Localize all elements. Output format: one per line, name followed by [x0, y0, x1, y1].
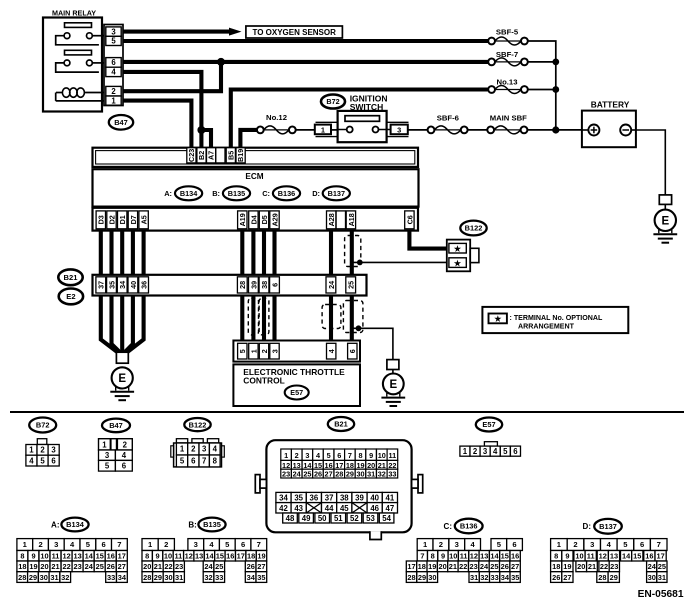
svg-text:A:: A:	[164, 189, 172, 198]
svg-text:7: 7	[117, 540, 121, 549]
svg-text:A5: A5	[140, 215, 149, 224]
svg-text:6: 6	[101, 540, 105, 549]
svg-text:D1: D1	[118, 215, 127, 224]
svg-text:A28: A28	[327, 213, 336, 226]
svg-text:15: 15	[633, 552, 641, 561]
svg-text:★: ★	[494, 315, 502, 324]
svg-text:40: 40	[129, 281, 138, 289]
svg-text:B21: B21	[64, 273, 79, 282]
svg-text:4: 4	[213, 445, 218, 454]
svg-text:B134: B134	[66, 520, 85, 529]
svg-text:D:: D:	[583, 522, 591, 531]
svg-text:27: 27	[511, 562, 519, 571]
svg-text:14: 14	[303, 461, 312, 470]
svg-text:2: 2	[573, 540, 577, 549]
svg-text:48: 48	[286, 514, 295, 523]
svg-text:B134: B134	[180, 189, 198, 198]
svg-text:54: 54	[382, 514, 391, 523]
svg-text:3: 3	[111, 27, 116, 36]
svg-text:25: 25	[347, 281, 356, 289]
svg-text:1: 1	[284, 451, 288, 460]
svg-text:2: 2	[295, 451, 299, 460]
svg-text:B21: B21	[334, 420, 348, 429]
svg-text:18: 18	[18, 562, 26, 571]
svg-text:8: 8	[213, 457, 218, 466]
svg-text:10: 10	[164, 552, 172, 561]
svg-text:20: 20	[577, 562, 585, 571]
svg-text:21: 21	[154, 562, 162, 571]
svg-text:25: 25	[303, 470, 311, 479]
svg-text:11: 11	[460, 552, 468, 561]
svg-text:12: 12	[282, 461, 290, 470]
svg-text:17: 17	[237, 552, 245, 561]
svg-text:7: 7	[420, 552, 424, 561]
svg-text:28: 28	[18, 573, 26, 582]
svg-text:1: 1	[180, 445, 185, 454]
svg-text:34: 34	[247, 573, 256, 582]
svg-text:A18: A18	[347, 213, 356, 226]
svg-text:SBF-6: SBF-6	[437, 114, 459, 123]
svg-text:26: 26	[107, 562, 115, 571]
svg-text:6: 6	[337, 451, 341, 460]
svg-text:11: 11	[389, 451, 397, 460]
svg-text:20: 20	[438, 562, 446, 571]
svg-text:B136: B136	[278, 189, 295, 198]
svg-text:30: 30	[428, 573, 436, 582]
svg-text:23: 23	[610, 562, 618, 571]
svg-text:10: 10	[449, 552, 457, 561]
svg-text:49: 49	[302, 514, 311, 523]
svg-text:22: 22	[459, 562, 467, 571]
svg-text:23: 23	[175, 562, 183, 571]
svg-text:11: 11	[174, 552, 182, 561]
svg-text:B122: B122	[189, 420, 207, 429]
svg-text:33: 33	[490, 573, 498, 582]
svg-text:24: 24	[648, 562, 657, 571]
svg-text:15: 15	[314, 461, 322, 470]
svg-text:1: 1	[102, 441, 107, 450]
svg-text:3: 3	[305, 451, 309, 460]
svg-text:22: 22	[164, 562, 172, 571]
svg-text:30: 30	[648, 573, 656, 582]
svg-text:22: 22	[600, 562, 608, 571]
svg-text:6: 6	[513, 447, 518, 456]
svg-text:11: 11	[52, 552, 60, 561]
svg-text:5: 5	[327, 451, 331, 460]
svg-text:10: 10	[575, 552, 583, 561]
svg-text:44: 44	[325, 504, 334, 513]
svg-text:C:: C:	[444, 522, 452, 531]
svg-text:30: 30	[356, 470, 364, 479]
svg-text:5: 5	[111, 37, 116, 46]
svg-text:4: 4	[122, 451, 127, 460]
svg-text:16: 16	[226, 552, 234, 561]
svg-text:D7: D7	[129, 215, 138, 224]
svg-text:3: 3	[105, 451, 110, 460]
svg-text:18: 18	[418, 562, 426, 571]
svg-text:7: 7	[257, 540, 261, 549]
svg-text:31: 31	[658, 573, 666, 582]
svg-text:5: 5	[503, 447, 508, 456]
svg-text:3: 3	[483, 447, 488, 456]
svg-text:8: 8	[20, 552, 24, 561]
svg-text:42: 42	[279, 504, 288, 513]
svg-text:35: 35	[107, 281, 116, 289]
svg-text:39: 39	[355, 494, 364, 503]
svg-text:No.12: No.12	[266, 113, 287, 122]
svg-text:31: 31	[367, 470, 375, 479]
svg-text:33: 33	[215, 573, 223, 582]
svg-text:B135: B135	[228, 189, 245, 198]
svg-text:2: 2	[38, 540, 42, 549]
svg-text:B136: B136	[460, 522, 478, 531]
svg-text:27: 27	[118, 562, 126, 571]
svg-text:A:: A:	[51, 521, 59, 530]
svg-text:20: 20	[367, 461, 375, 470]
svg-text:50: 50	[318, 514, 327, 523]
svg-text:7: 7	[348, 451, 352, 460]
svg-text:15: 15	[96, 552, 104, 561]
svg-text:B47: B47	[114, 118, 128, 127]
svg-text:ARRANGEMENT: ARRANGEMENT	[518, 322, 575, 330]
svg-text:20: 20	[143, 562, 151, 571]
svg-text:4: 4	[111, 68, 116, 77]
svg-text:40: 40	[370, 494, 379, 503]
svg-text:16: 16	[645, 552, 653, 561]
svg-text:2: 2	[123, 441, 128, 450]
svg-text:10: 10	[378, 451, 386, 460]
svg-text:13: 13	[480, 552, 488, 561]
svg-text:9: 9	[369, 451, 373, 460]
svg-text:38: 38	[340, 494, 349, 503]
svg-text:26: 26	[552, 573, 560, 582]
svg-text:2: 2	[164, 540, 168, 549]
svg-text:30: 30	[164, 573, 172, 582]
svg-text:24: 24	[480, 562, 489, 571]
svg-text:18: 18	[346, 461, 354, 470]
svg-text:C:: C:	[262, 189, 270, 198]
svg-text:8: 8	[431, 552, 435, 561]
svg-text:A29: A29	[270, 213, 279, 226]
svg-text:24: 24	[85, 562, 94, 571]
svg-text:D:: D:	[312, 189, 320, 198]
svg-text:15: 15	[501, 552, 509, 561]
svg-text:32: 32	[204, 573, 212, 582]
svg-text:12: 12	[470, 552, 478, 561]
svg-text:: TERMINAL No. OPTIONAL: : TERMINAL No. OPTIONAL	[510, 314, 604, 322]
svg-text:TO OXYGEN SENSOR: TO OXYGEN SENSOR	[252, 28, 336, 37]
svg-text:29: 29	[154, 573, 162, 582]
svg-text:45: 45	[340, 504, 349, 513]
svg-text:16: 16	[107, 552, 115, 561]
svg-text:3: 3	[51, 446, 56, 455]
svg-text:31: 31	[175, 573, 183, 582]
svg-text:3: 3	[590, 540, 594, 549]
svg-text:19: 19	[563, 562, 571, 571]
svg-text:4: 4	[493, 447, 498, 456]
svg-text:4: 4	[29, 456, 34, 465]
svg-text:6: 6	[111, 58, 116, 67]
svg-text:B2: B2	[197, 151, 206, 160]
svg-text:B19: B19	[236, 149, 245, 162]
svg-text:19: 19	[356, 461, 364, 470]
svg-text:6: 6	[241, 540, 245, 549]
svg-text:17: 17	[407, 562, 415, 571]
svg-text:26: 26	[501, 562, 509, 571]
svg-text:24: 24	[327, 281, 336, 289]
svg-text:6: 6	[640, 540, 644, 549]
svg-text:D2: D2	[107, 215, 116, 224]
svg-text:36: 36	[140, 281, 149, 289]
svg-text:No.13: No.13	[497, 77, 518, 86]
svg-text:33: 33	[107, 573, 115, 582]
svg-text:47: 47	[386, 504, 395, 513]
svg-text:9: 9	[156, 552, 160, 561]
svg-text:25: 25	[490, 562, 498, 571]
svg-text:32: 32	[480, 573, 488, 582]
svg-text:B135: B135	[203, 520, 221, 529]
svg-text:9: 9	[31, 552, 35, 561]
svg-text:26: 26	[314, 470, 322, 479]
svg-text:29: 29	[610, 573, 618, 582]
svg-text:2: 2	[40, 446, 45, 455]
svg-text:34: 34	[279, 494, 288, 503]
svg-text:E2: E2	[66, 292, 75, 301]
svg-text:SBF-5: SBF-5	[496, 27, 519, 36]
svg-text:C23: C23	[187, 149, 196, 162]
svg-text:5: 5	[238, 349, 247, 353]
svg-text:14: 14	[205, 552, 214, 561]
svg-text:23: 23	[469, 562, 477, 571]
svg-text:8: 8	[358, 451, 362, 460]
svg-text:10: 10	[40, 552, 48, 561]
svg-text:52: 52	[350, 514, 359, 523]
svg-text:9: 9	[565, 552, 569, 561]
svg-text:51: 51	[334, 514, 343, 523]
svg-text:5: 5	[180, 457, 185, 466]
svg-text:B:: B:	[212, 189, 220, 198]
svg-text:B122: B122	[465, 224, 483, 233]
svg-text:29: 29	[346, 470, 354, 479]
svg-text:6: 6	[512, 540, 516, 549]
svg-text:D3: D3	[97, 215, 106, 224]
svg-text:13: 13	[293, 461, 301, 470]
svg-text:MAIN RELAY: MAIN RELAY	[52, 9, 96, 18]
svg-text:25: 25	[215, 562, 223, 571]
svg-text:8: 8	[145, 552, 149, 561]
svg-text:6: 6	[122, 461, 127, 470]
svg-text:22: 22	[62, 562, 70, 571]
svg-text:D4: D4	[249, 215, 258, 224]
svg-text:19: 19	[257, 552, 265, 561]
svg-text:19: 19	[29, 562, 37, 571]
svg-text:46: 46	[370, 504, 379, 513]
svg-text:6: 6	[191, 457, 196, 466]
svg-text:B47: B47	[109, 421, 123, 430]
svg-text:28: 28	[238, 281, 247, 289]
svg-text:MAIN SBF: MAIN SBF	[490, 114, 527, 123]
svg-text:21: 21	[378, 461, 386, 470]
svg-text:B72: B72	[36, 421, 50, 430]
svg-text:37: 37	[97, 281, 106, 289]
svg-text:24: 24	[293, 470, 302, 479]
svg-text:★: ★	[453, 259, 462, 268]
svg-text:53: 53	[366, 514, 375, 523]
svg-text:3: 3	[54, 540, 58, 549]
svg-text:2: 2	[191, 445, 196, 454]
svg-text:3: 3	[270, 349, 279, 353]
svg-text:1: 1	[29, 446, 34, 455]
svg-text:31: 31	[50, 573, 58, 582]
svg-text:28: 28	[598, 573, 606, 582]
svg-text:16: 16	[511, 552, 519, 561]
svg-text:SBF-7: SBF-7	[496, 50, 518, 59]
svg-text:43: 43	[294, 504, 303, 513]
svg-text:25: 25	[96, 562, 104, 571]
svg-text:3: 3	[202, 445, 207, 454]
svg-text:21: 21	[449, 562, 457, 571]
svg-text:24: 24	[204, 562, 213, 571]
svg-text:E: E	[389, 379, 397, 391]
svg-text:1: 1	[249, 349, 258, 353]
svg-text:37: 37	[325, 494, 334, 503]
svg-text:2: 2	[473, 447, 478, 456]
svg-text:35: 35	[511, 573, 519, 582]
svg-text:E57: E57	[290, 388, 303, 397]
svg-text:21: 21	[588, 562, 596, 571]
svg-text:B72: B72	[326, 97, 339, 106]
svg-text:41: 41	[386, 494, 395, 503]
svg-text:19: 19	[428, 562, 436, 571]
svg-text:16: 16	[325, 461, 333, 470]
svg-text:14: 14	[490, 552, 499, 561]
svg-text:E: E	[661, 216, 669, 228]
svg-text:17: 17	[656, 552, 664, 561]
svg-text:1: 1	[111, 96, 116, 105]
svg-text:BATTERY: BATTERY	[591, 99, 630, 109]
svg-text:27: 27	[325, 470, 333, 479]
svg-text:2: 2	[439, 540, 443, 549]
svg-text:CONTROL: CONTROL	[243, 375, 284, 385]
svg-text:21: 21	[51, 562, 59, 571]
svg-text:11: 11	[587, 552, 595, 561]
svg-text:3: 3	[455, 540, 459, 549]
svg-text:3: 3	[397, 125, 401, 134]
svg-text:35: 35	[294, 494, 303, 503]
svg-text:22: 22	[388, 461, 396, 470]
svg-text:23: 23	[282, 470, 290, 479]
svg-text:B:: B:	[188, 521, 196, 530]
svg-text:2: 2	[111, 87, 116, 96]
svg-text:32: 32	[378, 470, 386, 479]
svg-text:C6: C6	[405, 215, 414, 224]
svg-text:8: 8	[554, 552, 558, 561]
svg-text:6: 6	[270, 283, 279, 287]
svg-text:39: 39	[249, 281, 258, 289]
svg-text:9: 9	[441, 552, 445, 561]
svg-text:14: 14	[622, 552, 631, 561]
svg-text:29: 29	[29, 573, 37, 582]
svg-text:★: ★	[453, 245, 462, 254]
svg-text:2: 2	[260, 349, 269, 353]
svg-text:26: 26	[247, 562, 255, 571]
svg-text:23: 23	[73, 562, 81, 571]
svg-text:A19: A19	[238, 213, 247, 226]
svg-text:34: 34	[118, 281, 127, 289]
svg-text:17: 17	[335, 461, 343, 470]
svg-text:38: 38	[260, 281, 269, 289]
svg-text:17: 17	[118, 552, 126, 561]
svg-text:B137: B137	[599, 522, 617, 531]
svg-text:E: E	[118, 373, 126, 385]
svg-text:34: 34	[501, 573, 510, 582]
svg-text:28: 28	[143, 573, 151, 582]
svg-text:14: 14	[85, 552, 94, 561]
svg-text:34: 34	[118, 573, 127, 582]
svg-text:13: 13	[610, 552, 618, 561]
svg-text:1: 1	[321, 125, 325, 134]
svg-text:7: 7	[202, 457, 206, 466]
svg-text:5: 5	[105, 461, 110, 470]
svg-text:29: 29	[418, 573, 426, 582]
svg-text:12: 12	[185, 552, 193, 561]
svg-text:5: 5	[40, 456, 45, 465]
svg-text:12: 12	[599, 552, 607, 561]
svg-text:12: 12	[62, 552, 70, 561]
svg-text:3: 3	[194, 540, 198, 549]
svg-text:27: 27	[257, 562, 265, 571]
svg-text:13: 13	[195, 552, 203, 561]
svg-text:30: 30	[40, 573, 48, 582]
svg-text:15: 15	[216, 552, 224, 561]
svg-text:EN-05681: EN-05681	[638, 589, 684, 600]
svg-text:E57: E57	[482, 420, 495, 429]
svg-text:18: 18	[247, 552, 255, 561]
svg-text:1: 1	[463, 447, 468, 456]
svg-text:13: 13	[73, 552, 81, 561]
svg-text:7: 7	[657, 540, 661, 549]
svg-text:B137: B137	[328, 189, 345, 198]
svg-text:6: 6	[348, 349, 357, 353]
svg-text:6: 6	[51, 456, 56, 465]
svg-text:D5: D5	[260, 215, 269, 224]
svg-text:33: 33	[388, 470, 396, 479]
svg-text:ECM: ECM	[245, 172, 263, 181]
svg-text:4: 4	[327, 349, 336, 353]
svg-text:B5: B5	[226, 151, 235, 160]
svg-text:20: 20	[40, 562, 48, 571]
svg-text:28: 28	[407, 573, 415, 582]
svg-text:31: 31	[470, 573, 478, 582]
svg-text:18: 18	[552, 562, 560, 571]
svg-text:28: 28	[335, 470, 343, 479]
svg-text:35: 35	[257, 573, 265, 582]
svg-text:A7: A7	[207, 151, 216, 160]
svg-text:32: 32	[61, 573, 69, 582]
svg-text:36: 36	[310, 494, 319, 503]
svg-text:25: 25	[658, 562, 666, 571]
svg-text:27: 27	[563, 573, 571, 582]
